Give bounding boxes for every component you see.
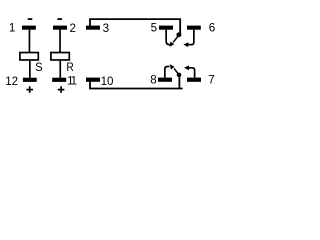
- wire pole B pivot drop: [178, 75, 180, 89]
- coil polarity plus at pin 12: [26, 86, 33, 93]
- wire pin 1 to coil S: [29, 30, 31, 53]
- terminal 2: [53, 26, 67, 30]
- wire coil S to pin 12: [29, 61, 31, 78]
- terminal 5: [159, 26, 173, 30]
- pole B blade arrowhead onto pin 8 contact: [170, 64, 175, 69]
- svg-text:R: R: [66, 60, 73, 74]
- svg-text:10: 10: [101, 75, 114, 88]
- pole A moving contact blade: [173, 35, 179, 43]
- svg-text:5: 5: [151, 21, 157, 34]
- svg-text:7: 7: [208, 73, 214, 86]
- svg-text:12: 12: [5, 75, 18, 88]
- svg-text:2: 2: [70, 22, 76, 35]
- svg-text:S: S: [35, 60, 43, 74]
- wire coil R to pin 11: [59, 61, 61, 78]
- wire pin 5 to contact A: [166, 30, 170, 45]
- terminal 3: [86, 26, 100, 30]
- terminal 10: [86, 78, 100, 82]
- svg-text:1: 1: [9, 21, 15, 34]
- coil S: [20, 53, 38, 60]
- node pole A pivot: [176, 32, 181, 37]
- terminal 6: [187, 26, 201, 30]
- wire bottom rail: pin 10 riser to pole B pivot: [90, 81, 183, 88]
- wire pin 7 to contact B: [188, 68, 194, 78]
- node pole B pivot: [177, 73, 182, 78]
- coil R: [51, 53, 69, 60]
- wire pin 6 to contact A: [188, 30, 194, 45]
- contact A arrowhead at pin 6: [183, 42, 188, 47]
- pole A blade arrowhead onto pin 5 contact: [169, 42, 174, 47]
- terminal 12: [23, 78, 37, 82]
- svg-text:3: 3: [103, 22, 109, 35]
- coil polarity minus at pin 1: [28, 18, 33, 20]
- coil polarity plus at pin 11: [58, 86, 65, 93]
- contact B arrowhead at pin 7: [184, 65, 189, 70]
- wire pin 2 to coil R: [59, 30, 61, 53]
- svg-text:6: 6: [209, 21, 215, 34]
- wire top rail: pin 3 riser to pole A pivot: [90, 19, 180, 35]
- terminal 7: [187, 78, 201, 82]
- terminal 11: [52, 78, 66, 82]
- coil polarity minus at pin 2: [57, 18, 62, 20]
- svg-text:8: 8: [150, 74, 156, 87]
- wire pin 8 to contact B: [165, 67, 170, 78]
- pole B moving contact blade: [174, 68, 179, 75]
- terminal 8: [158, 78, 172, 82]
- terminal 1: [22, 26, 36, 30]
